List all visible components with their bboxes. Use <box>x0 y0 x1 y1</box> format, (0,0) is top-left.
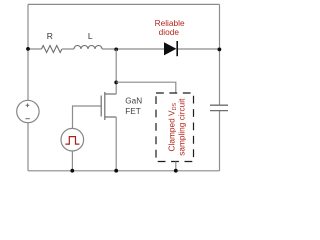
wire drain branch to sampling box <box>116 82 176 93</box>
node: rail to right rail junction <box>218 48 222 52</box>
node: pulse source bottom junction <box>70 169 74 173</box>
svg-text:FET: FET <box>125 107 140 116</box>
node: FET source bottom junction <box>114 169 118 173</box>
wire left rail upper <box>27 4 29 100</box>
svg-text:diode: diode <box>159 27 180 37</box>
diode D1 (reliable diode) <box>164 41 177 56</box>
inductor L <box>74 46 102 49</box>
svg-text:L: L <box>88 31 93 41</box>
dashed box: clamped Vds sampling circuit <box>156 93 194 162</box>
wire bottom rail <box>28 170 220 172</box>
node: rail to left rail junction <box>26 47 30 51</box>
node: drain branch junction <box>114 81 118 85</box>
pulse source Vg <box>61 128 84 151</box>
transistor Q1 GaN FET <box>101 92 116 120</box>
wire source vertical <box>115 117 117 171</box>
wire main rail segments <box>28 48 220 50</box>
label: Clamped Vds sampling circuit (rotated) <box>166 98 186 156</box>
wire right rail lower <box>219 111 221 171</box>
resistor R <box>42 46 62 53</box>
wire right rail upper <box>219 4 221 105</box>
svg-text:sampling circuit: sampling circuit <box>177 98 187 156</box>
svg-text:R: R <box>47 31 53 41</box>
node: inductor/drain junction <box>114 48 118 52</box>
wire top rail <box>28 3 220 5</box>
wire left rail lower <box>27 123 29 171</box>
wire drain vertical <box>115 49 117 94</box>
wire box to bottom rail <box>175 162 177 171</box>
wire gate path from pulse source <box>73 106 102 128</box>
wire pulse source to bottom rail <box>71 151 73 171</box>
svg-text:GaN: GaN <box>125 97 142 106</box>
voltage source V1 <box>17 100 39 122</box>
capacitor C1 <box>210 105 228 110</box>
label: Reliable diode <box>155 18 185 37</box>
label: GaN FET <box>125 97 142 116</box>
node: sampling box bottom junction <box>174 169 178 173</box>
